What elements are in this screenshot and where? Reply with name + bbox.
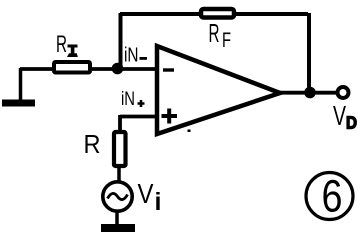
svg-text:R: R <box>84 129 101 159</box>
svg-text:iN: iN <box>121 89 135 110</box>
svg-text:R: R <box>209 18 220 48</box>
svg-text:V: V <box>333 100 346 131</box>
svg-text:6: 6 <box>322 171 343 222</box>
svg-text:D: D <box>346 113 357 133</box>
svg-text:V: V <box>138 178 154 209</box>
svg-text:F: F <box>222 29 231 52</box>
svg-text:i: i <box>155 188 162 216</box>
svg-text:R: R <box>56 31 67 58</box>
svg-text:iN: iN <box>124 45 139 67</box>
